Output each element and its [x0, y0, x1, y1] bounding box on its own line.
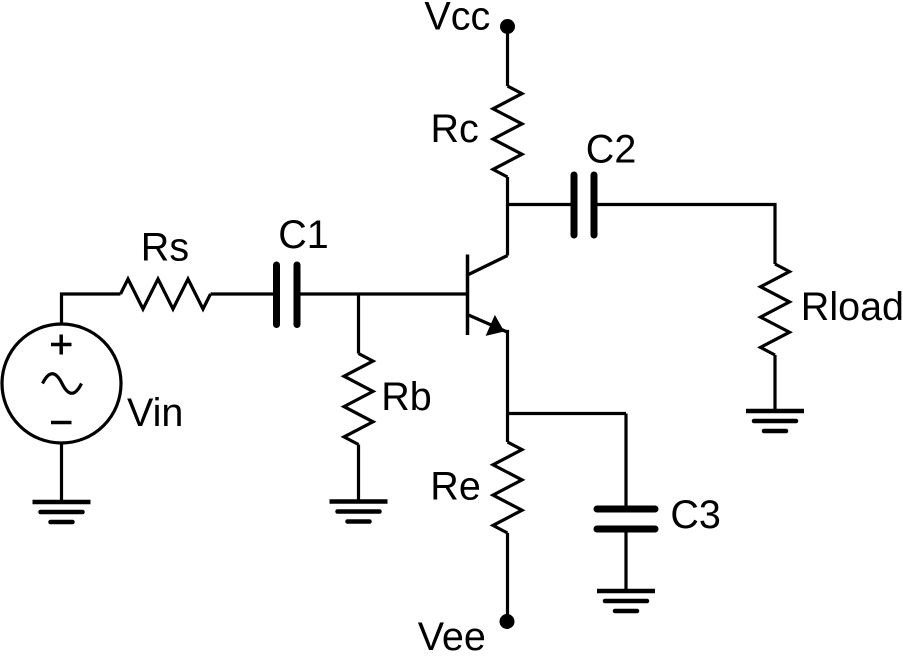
node base junction, wire to Rb [357, 294, 360, 354]
svg-text:C3: C3 [670, 493, 721, 537]
transistor Q1 base bar [466, 255, 470, 336]
resistor Rb [344, 354, 373, 445]
wire Rc to collector [506, 177, 509, 256]
wire emitter node to C3 branch [508, 412, 627, 415]
capacitor C2 [574, 175, 594, 235]
wire emitter to Re [506, 414, 509, 443]
ground below C3 [597, 591, 655, 611]
resistor Rs [121, 279, 211, 309]
node Vee terminal dot [500, 614, 515, 629]
resistor Re [493, 442, 522, 533]
wire Rs to C1 [211, 292, 274, 295]
wire Rb to ground [357, 445, 360, 502]
ground below Rload [746, 411, 804, 431]
transistor Q1 emitter lead [469, 315, 508, 414]
svg-text:Rb: Rb [381, 375, 432, 419]
svg-text:Rs: Rs [141, 226, 189, 270]
wire to C3 [624, 414, 627, 507]
wire C2 to Rload [597, 205, 775, 265]
ground below Rb [330, 502, 388, 522]
capacitor C1 [277, 265, 298, 325]
svg-text:Vin: Vin [127, 391, 183, 435]
svg-text:Re: Re [430, 464, 481, 508]
svg-text:C1: C1 [278, 213, 329, 257]
resistor Rc [493, 86, 522, 177]
wire Vin to Rs [62, 294, 121, 324]
resistor Rload [761, 264, 790, 355]
Vin minus sign [51, 421, 72, 425]
wire C3 to ground [624, 532, 627, 591]
wire collector node to C2 [508, 203, 572, 206]
svg-text:Vee: Vee [418, 615, 486, 651]
wire base [300, 292, 466, 295]
voltage source Vin circle [2, 324, 121, 443]
ground below Vin [33, 502, 91, 522]
wire Re to Vee [506, 533, 509, 622]
Vin plus sign [51, 335, 72, 355]
svg-text:Vcc: Vcc [424, 0, 490, 39]
transistor Q1 emitter arrowhead [487, 316, 504, 335]
svg-text:Rc: Rc [431, 107, 479, 151]
wire Vin to ground [60, 443, 63, 502]
svg-text:C2: C2 [586, 127, 637, 171]
wire Vcc to Rc [506, 27, 509, 87]
Vin sine wave [43, 374, 82, 394]
capacitor C3 [597, 509, 655, 529]
node Vcc terminal dot [500, 19, 515, 34]
transistor Q1 collector lead [469, 256, 508, 275]
wire Rload to ground [773, 355, 776, 411]
svg-text:Rload: Rload [801, 285, 903, 329]
